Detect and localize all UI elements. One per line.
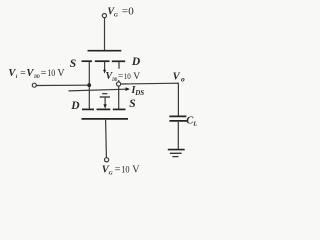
wire bottom gate stem — [105, 120, 108, 158]
wire input — [37, 84, 89, 86]
svg-text:D: D — [70, 100, 80, 112]
terminal bottom gate — [105, 158, 109, 162]
ground bar 1 — [168, 149, 185, 151]
M2 substrate arrowhead — [103, 104, 106, 109]
label V_i = V_DD = 10 V input — [8, 68, 65, 80]
terminal top gate — [102, 14, 106, 18]
svg-text:V: V — [173, 71, 181, 82]
M2 substrate dash upper — [102, 93, 107, 95]
M2 substrate dash lower — [100, 96, 110, 98]
node output circle — [117, 82, 121, 86]
M1 substrate arrowhead — [103, 70, 106, 74]
svg-text:V: V — [133, 72, 140, 82]
svg-text:G: G — [114, 13, 118, 19]
svg-text:G: G — [109, 170, 113, 176]
svg-text:D: D — [131, 56, 141, 68]
label V_G = 10 V bottom — [102, 164, 141, 176]
svg-text:=: = — [118, 72, 123, 82]
transistor M1 gate bar — [88, 50, 122, 52]
ground bar 2 — [170, 152, 182, 154]
wire bus with current arrow — [69, 89, 127, 91]
svg-text:10: 10 — [124, 72, 131, 81]
ground bar 3 — [172, 156, 178, 158]
M1 channel dash middle — [95, 60, 110, 62]
svg-text:S: S — [129, 98, 135, 110]
junction dot node A — [87, 83, 91, 87]
wire right column — [118, 86, 120, 108]
M1 channel dash drain — [112, 60, 125, 62]
transistor M2 gate bar — [82, 118, 129, 120]
wire output — [121, 83, 179, 115]
wire top gate stem — [104, 18, 106, 50]
capacitor CL top plate — [169, 115, 186, 117]
svg-text:0: 0 — [128, 6, 134, 18]
label V_o — [173, 71, 185, 83]
svg-text:DD: DD — [112, 77, 118, 83]
svg-text:o: o — [181, 75, 185, 84]
M2 contact dash source — [113, 108, 126, 110]
svg-text:10: 10 — [121, 164, 130, 174]
label V_G = 0 — [107, 6, 134, 19]
terminal input — [32, 83, 36, 87]
capacitor CL bottom plate — [169, 120, 186, 122]
wire left column — [88, 85, 90, 109]
svg-text:DD: DD — [33, 74, 39, 80]
label C_L — [186, 116, 197, 128]
svg-text:V: V — [57, 68, 65, 79]
svg-text:10: 10 — [47, 68, 56, 78]
svg-text:=: = — [20, 68, 26, 79]
svg-text:=: = — [41, 68, 47, 79]
wire M1 source lead — [88, 62, 90, 85]
M2 contact dash drain — [82, 108, 94, 110]
svg-text:L: L — [192, 121, 197, 128]
M2 contact dash middle — [97, 108, 111, 110]
arrowhead I_DS — [126, 87, 131, 91]
svg-text:V: V — [132, 164, 140, 175]
wire M1 drain lead lower segment — [118, 80, 120, 82]
svg-text:=: = — [122, 6, 128, 18]
svg-text:=: = — [115, 164, 121, 175]
svg-text:DS: DS — [134, 89, 144, 97]
label I_DS — [131, 85, 145, 97]
wire capacitor to ground — [177, 122, 179, 149]
label V_DD = 10 V drain node — [106, 71, 141, 83]
svg-text:S: S — [70, 58, 76, 70]
wire M1 drain lead — [118, 62, 120, 69]
M1 substrate lead — [104, 62, 106, 70]
M1 channel dash source — [82, 60, 93, 62]
M2 substrate arrow shaft — [104, 98, 106, 105]
